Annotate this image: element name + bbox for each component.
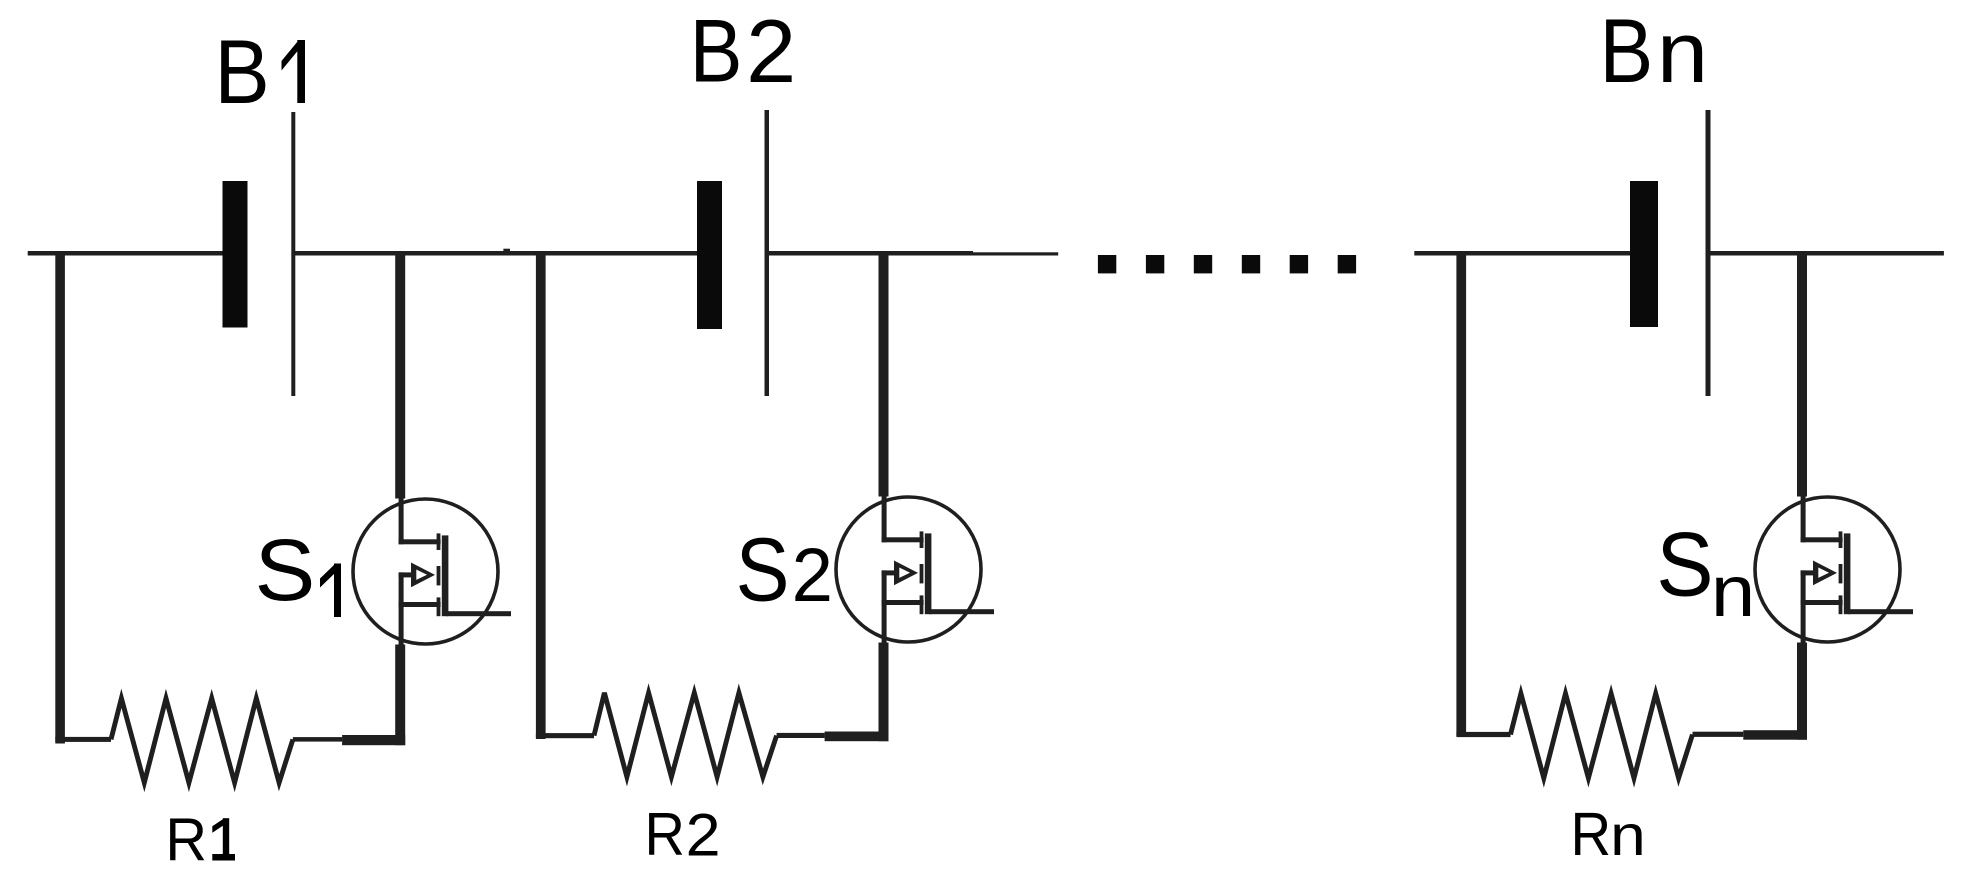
wire celln drain vertical from bus xyxy=(1797,251,1807,497)
svg-text:B: B xyxy=(214,21,269,122)
transistor Sn (MOSFET switch) xyxy=(1755,497,1900,642)
resistor Rn zigzag xyxy=(1511,694,1693,779)
svg-text:B: B xyxy=(1600,1,1654,102)
wire cell2 left branch vertical xyxy=(536,251,546,739)
svg-text:R: R xyxy=(645,801,685,868)
resistor R1 zigzag xyxy=(111,698,293,782)
svg-text:2: 2 xyxy=(686,802,721,870)
wire top bus dots to Bn xyxy=(1414,251,1630,256)
wire cell2 bottom right thin xyxy=(777,733,825,738)
wire cell2 bottom left horizontal xyxy=(536,733,594,738)
resistor R2 zigzag xyxy=(594,693,777,777)
svg-text:n: n xyxy=(1711,551,1755,632)
battery Bn positive plate (thick bar) xyxy=(1630,181,1658,327)
transistor S2 (MOSFET switch) xyxy=(836,497,981,642)
node junction nub on bus xyxy=(503,249,510,256)
svg-text:n: n xyxy=(1657,4,1708,101)
wire top bus thin tail before dots xyxy=(973,252,1058,255)
wire top bus B2 to dots xyxy=(769,251,974,256)
transistor S1 (MOSFET switch) xyxy=(353,499,498,644)
svg-text:S: S xyxy=(254,521,315,619)
wire cell1 left branch vertical xyxy=(55,251,65,744)
svg-text:S: S xyxy=(1656,513,1713,615)
wire cell1 source vertical to resistor xyxy=(395,645,405,746)
wire celln bottom right thick xyxy=(1743,730,1807,740)
wire cell1 bottom right thick xyxy=(342,735,405,745)
svg-text:S: S xyxy=(736,521,790,621)
wire cell1 bottom right thin xyxy=(293,737,342,742)
wire cell1 bottom left horizontal xyxy=(55,737,111,742)
svg-text:n: n xyxy=(1610,803,1646,867)
svg-text:2: 2 xyxy=(792,532,833,617)
battery B2 negative plate (thin long bar) xyxy=(765,110,770,396)
svg-text:B: B xyxy=(690,1,743,100)
wire celln bottom right thin xyxy=(1693,732,1744,737)
svg-text:R: R xyxy=(1571,801,1612,869)
battery B1 negative plate (thin long bar) xyxy=(291,112,295,396)
svg-text:2: 2 xyxy=(746,1,796,101)
wire top bus B1 to B2 xyxy=(295,251,698,256)
wire celln source vertical to resistor xyxy=(1797,643,1807,740)
battery B2 positive plate (thick bar) xyxy=(697,181,722,329)
wire cell2 bottom right thick xyxy=(825,732,889,742)
wire celln bottom left horizontal xyxy=(1456,732,1510,737)
wire celln left branch vertical xyxy=(1456,251,1466,736)
node ellipsis dots (series continues) xyxy=(1098,255,1116,273)
wire cell2 drain vertical from bus xyxy=(879,251,889,497)
wire top bus right of Bn xyxy=(1706,251,1944,256)
battery Bn negative plate (thin long bar) xyxy=(1706,110,1711,396)
wire cell1 drain vertical from bus xyxy=(395,251,405,499)
svg-text:R: R xyxy=(165,805,207,874)
battery B1 positive plate (thick bar) xyxy=(223,181,248,328)
wire cell2 source vertical to resistor xyxy=(879,643,889,742)
wire top bus segment left of B1 xyxy=(28,251,223,256)
